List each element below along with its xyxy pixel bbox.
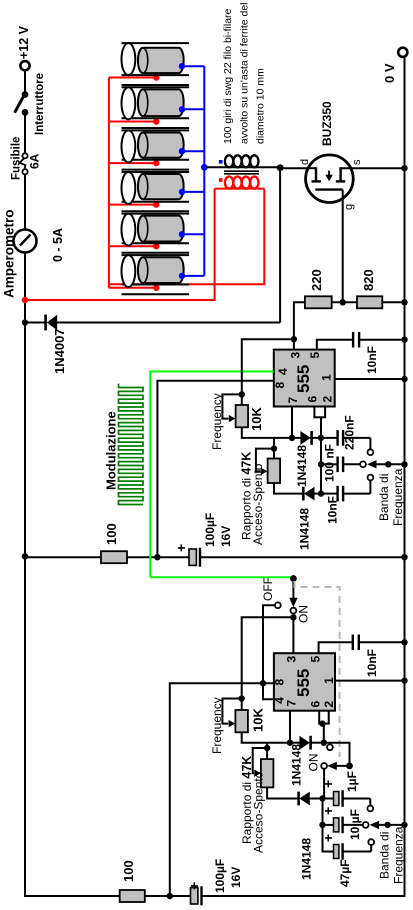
svg-text:820: 820 bbox=[361, 269, 376, 291]
svg-text:Banda di: Banda di bbox=[377, 474, 391, 521]
svg-text:Frequenza: Frequenza bbox=[391, 468, 405, 526]
node B timing junction bbox=[318, 435, 324, 441]
blue polarity dot bbox=[219, 160, 223, 164]
capacitor C 10uF bbox=[320, 807, 369, 840]
svg-text:100µF: 100µF bbox=[213, 859, 227, 893]
ferrite rod coil 3 bbox=[121, 130, 204, 169]
svg-text:+: + bbox=[320, 807, 336, 815]
node red tap coil 2 bbox=[153, 118, 159, 124]
wire 220 to gate node bbox=[332, 301, 358, 303]
wire pin 5 U2 + capacitor C 10nF (control) bbox=[319, 635, 408, 678]
svg-text:8: 8 bbox=[273, 382, 287, 389]
node D2 junction bbox=[318, 490, 324, 496]
svg-text:5: 5 bbox=[309, 656, 323, 663]
wire supply column 1 (first 555 feed) bbox=[25, 556, 102, 558]
wire +12V rail (ammeter to left corner) bbox=[24, 253, 26, 898]
wire pin 3 output U2 to switch bbox=[292, 614, 294, 654]
switch band selector (lower block) bbox=[370, 821, 408, 884]
node pin3 output junction U2 bbox=[290, 614, 296, 620]
capacitor C 220nF bbox=[321, 415, 373, 455]
node red tap coil 4 bbox=[153, 201, 159, 207]
diode D 1N4007 (flyback) bbox=[25, 315, 280, 374]
switch range enable (lower block) bbox=[307, 744, 353, 771]
switch modulation ON/OFF bbox=[261, 575, 311, 683]
svg-text:1N4148: 1N4148 bbox=[300, 838, 314, 880]
svg-text:BUZ350: BUZ350 bbox=[320, 101, 334, 146]
svg-text:OFF: OFF bbox=[261, 577, 275, 601]
diode D2 1N4148 (lower block) bbox=[299, 792, 323, 880]
wire pin3 U2 to 10K pot top bbox=[242, 617, 294, 698]
svg-text:Interruttore: Interruttore bbox=[34, 73, 46, 135]
node C1 (1uF junction) bbox=[319, 795, 325, 801]
wire Vcc riser to pin 8 U1 bbox=[157, 381, 273, 557]
wire green to ON/OFF switch bbox=[150, 576, 292, 578]
potentiometer 47K (duty, lower block) bbox=[240, 748, 273, 853]
svg-text:100: 100 bbox=[121, 860, 136, 882]
svg-text:10K: 10K bbox=[251, 708, 266, 732]
node supply 2 (Vcc feed of lower 555) bbox=[167, 893, 173, 899]
svg-text:10K: 10K bbox=[249, 407, 264, 431]
resistor R 100 (second block supply) bbox=[120, 860, 145, 902]
wire chain C2 to C3 bbox=[323, 825, 334, 852]
svg-text:0 V: 0 V bbox=[382, 63, 397, 83]
svg-text:Frequency: Frequency bbox=[210, 393, 224, 450]
wire 47K branch bbox=[273, 438, 275, 449]
svg-text:ON: ON bbox=[297, 605, 311, 623]
winding L black (sense) bbox=[206, 155, 280, 167]
svg-text:+: + bbox=[320, 780, 336, 788]
diode D1 1N4148 (lower block) bbox=[290, 736, 324, 786]
node A2 discharge junction bbox=[287, 740, 293, 746]
op-amp-style IC U2 555 timer bbox=[274, 653, 335, 711]
wire pins 6+2 U1 bbox=[313, 407, 326, 494]
ferrite rod coil 6 bbox=[121, 255, 204, 294]
node supply 1 (Vcc feed of upper 555) bbox=[154, 554, 160, 560]
svg-text:Frequenza: Frequenza bbox=[392, 826, 406, 884]
wire pins 6+2 U2 bbox=[318, 711, 330, 743]
node top rail / red coil feed (red) bbox=[22, 297, 28, 303]
winding L red (primary) bbox=[215, 177, 265, 189]
svg-text:g: g bbox=[343, 204, 355, 210]
wire red riser coil 4 bbox=[109, 204, 156, 206]
svg-text:Acceso-Spento: Acceso-Spento bbox=[252, 771, 266, 853]
node A discharge junction bbox=[289, 435, 295, 441]
wire red return to bus bbox=[109, 189, 264, 285]
switch band selector (upper block) bbox=[367, 460, 408, 526]
switch S1 Interruttore bbox=[15, 73, 46, 135]
wire blue bus bbox=[203, 66, 205, 276]
diode D1 1N4148 (upper block) bbox=[292, 431, 321, 487]
svg-text:6: 6 bbox=[309, 701, 323, 708]
resistor R 820 (gate pulldown) bbox=[357, 269, 382, 308]
svg-text:10nF: 10nF bbox=[326, 496, 340, 524]
svg-text:7: 7 bbox=[285, 700, 299, 707]
svg-text:16V: 16V bbox=[229, 867, 243, 888]
wire pin 1 U1 to 0V rail bbox=[335, 376, 408, 382]
node timing/100nF junction bbox=[318, 461, 324, 467]
svg-text:16V: 16V bbox=[219, 526, 233, 547]
svg-text:7: 7 bbox=[286, 397, 300, 404]
+12V terminal bbox=[17, 25, 31, 70]
capacitor C 1uF bbox=[320, 771, 373, 811]
svg-text:8: 8 bbox=[273, 679, 287, 686]
node 10K top / wiper (lower block) bbox=[239, 695, 245, 701]
waveform square wave (modulation) bbox=[119, 384, 144, 505]
node B2 timing junction bbox=[321, 740, 327, 746]
svg-text:100: 100 bbox=[104, 523, 119, 545]
svg-text:diametro 10 mm: diametro 10 mm bbox=[255, 68, 267, 144]
ferrite rod coil 1 bbox=[121, 43, 204, 85]
wire red riser coil 5 bbox=[109, 245, 156, 247]
node 820 on 0V rail bbox=[401, 299, 407, 305]
svg-text:ON: ON bbox=[307, 754, 321, 772]
capacitor C 10nF (timing) bbox=[321, 475, 373, 524]
wire switch to fuse bbox=[24, 112, 26, 153]
wire red feed from +12V rail bbox=[25, 189, 215, 300]
svg-text:220nF: 220nF bbox=[343, 415, 357, 450]
wire node B2 to range switch bbox=[324, 743, 350, 766]
node pin3 output junction U1 bbox=[291, 336, 297, 342]
svg-text:Modulazione: Modulazione bbox=[104, 411, 119, 490]
svg-text:1µF: 1µF bbox=[345, 771, 359, 792]
svg-text:+: + bbox=[320, 834, 336, 842]
wire pin 5 U1 + capacitor C 10nF (control) bbox=[317, 332, 408, 374]
svg-text:Frequency: Frequency bbox=[210, 697, 224, 754]
fuse F1 6A bbox=[11, 137, 42, 180]
svg-text:+12 V: +12 V bbox=[17, 25, 31, 59]
0V terminal bbox=[382, 48, 407, 83]
svg-text:10nF: 10nF bbox=[365, 346, 379, 374]
resistor R 220 (gate series) bbox=[305, 269, 332, 308]
op-amp-style IC U1 555 timer bbox=[274, 350, 335, 407]
wire red riser coil 1 bbox=[109, 77, 156, 79]
node source on 0V rail bbox=[401, 165, 407, 171]
wire fuse to ammeter bbox=[24, 174, 26, 229]
svg-text:47µF: 47µF bbox=[338, 859, 352, 887]
svg-text:1N4148: 1N4148 bbox=[295, 445, 309, 487]
ferrite rod coil 5 bbox=[121, 214, 204, 253]
wire red bus (collects coil red taps) bbox=[108, 78, 110, 288]
wire left supply column (second 555 feed) bbox=[24, 895, 121, 897]
svg-text:Amperometro: Amperometro bbox=[2, 209, 17, 298]
wire 1N4007 branch to drain node bbox=[279, 168, 281, 323]
node top rail / 1N4007 branch bbox=[22, 319, 28, 325]
label coil construction note bbox=[222, 3, 267, 145]
wire pin3 to 10K pot top bbox=[242, 339, 294, 394]
svg-text:1N4007: 1N4007 bbox=[52, 328, 67, 374]
wire source to 0V rail bbox=[341, 167, 405, 169]
node 10K top / wiper bbox=[239, 391, 245, 397]
potentiometer 10K (frequency, lower block) bbox=[210, 697, 266, 754]
svg-text:Fusibile: Fusibile bbox=[11, 137, 23, 180]
node red tap coil 1 bbox=[153, 74, 159, 80]
svg-text:s: s bbox=[351, 159, 363, 165]
node red tap coil 6 bbox=[153, 285, 159, 291]
capacitor C 47uF bbox=[320, 834, 374, 887]
node C2 (10uF junction) bbox=[319, 822, 325, 828]
transistor Q1 BUZ350 bbox=[299, 101, 363, 210]
node red tap coil 3 bbox=[153, 160, 159, 166]
wire red riser coil 3 bbox=[109, 162, 156, 164]
svg-text:555: 555 bbox=[294, 669, 313, 697]
node supply1 on 0V rail bbox=[401, 554, 407, 560]
wire +12V rail (terminal to switch) bbox=[24, 70, 26, 94]
svg-text:100 nF: 100 nF bbox=[323, 444, 337, 482]
wire pin 7 U1 bbox=[291, 407, 293, 438]
wire 10K bottom to node A2 bbox=[242, 732, 290, 742]
svg-text:10nF: 10nF bbox=[365, 649, 379, 677]
svg-text:+: + bbox=[186, 882, 202, 890]
transformer core bbox=[224, 171, 259, 174]
svg-text:555: 555 bbox=[294, 365, 313, 393]
wire pin 7 U2 bbox=[289, 711, 291, 743]
wire green reset pin 4 U1 bbox=[150, 372, 273, 578]
node 47K top / wiper (lower block) bbox=[264, 745, 270, 751]
wire gate bbox=[342, 190, 344, 303]
node red tap coil 5 bbox=[153, 243, 159, 249]
node top rail / supply branch 1 bbox=[22, 553, 28, 559]
wire 820 to 0V rail bbox=[382, 301, 404, 303]
svg-text:3: 3 bbox=[289, 352, 303, 359]
capacitor C 100nF bbox=[321, 444, 366, 482]
node gate / R divider bbox=[340, 299, 346, 305]
node 47K top / wiper bbox=[271, 445, 277, 451]
svg-text:10 µF: 10 µF bbox=[348, 809, 362, 840]
svg-text:5: 5 bbox=[308, 352, 322, 359]
ferrite rod coil 4 bbox=[121, 172, 204, 211]
svg-text:2: 2 bbox=[321, 396, 335, 403]
svg-text:4: 4 bbox=[276, 368, 290, 375]
svg-text:6A: 6A bbox=[28, 153, 42, 169]
potentiometer 47K (duty, upper block) bbox=[240, 449, 281, 545]
svg-text:1: 1 bbox=[320, 374, 334, 381]
svg-text:0 - 5A: 0 - 5A bbox=[51, 228, 65, 262]
wire 0V rail (bottom) bbox=[404, 57, 406, 897]
wire 47K bottom to D2 (lower block) bbox=[267, 787, 298, 798]
svg-text:avvolto su un'asta di ferrite: avvolto su un'asta di ferrite del bbox=[239, 3, 251, 145]
svg-text:1: 1 bbox=[322, 677, 336, 684]
wire 47K bottom to D2 bbox=[274, 483, 303, 494]
svg-text:100µF: 100µF bbox=[203, 513, 217, 547]
svg-text:220: 220 bbox=[309, 269, 324, 291]
svg-text:+: + bbox=[173, 544, 189, 552]
capacitor 100uF 16V (first block) bbox=[173, 513, 233, 567]
capacitor 100uF 16V (second block) bbox=[186, 859, 243, 906]
wire Vcc feed to pins 8+4 U2 bbox=[170, 680, 274, 896]
wire 47K branch (lower block) bbox=[266, 743, 268, 748]
wire pin 1 U2 to 0V rail bbox=[335, 677, 408, 683]
node drain / winding / 1N4007 bbox=[277, 164, 284, 171]
wire drain bbox=[280, 167, 316, 169]
svg-text:Banda di: Banda di bbox=[378, 832, 392, 879]
svg-text:3: 3 bbox=[285, 656, 299, 663]
diode D2 1N4148 (upper block) bbox=[298, 487, 322, 550]
svg-text:Acceso-Spento: Acceso-Spento bbox=[251, 463, 265, 545]
wire dashed modulation link bbox=[295, 581, 340, 757]
svg-text:1N4148: 1N4148 bbox=[290, 744, 304, 786]
wire red riser coil 2 bbox=[109, 121, 156, 123]
wire red riser coil 6 bbox=[109, 287, 156, 289]
resistor R 100 (first block supply) bbox=[101, 523, 127, 563]
wire chain C1 to C2 bbox=[322, 799, 324, 825]
svg-text:2: 2 bbox=[322, 701, 336, 708]
wire range switch to cap chain bbox=[323, 769, 325, 798]
wire 555#1 output to gate chain bbox=[294, 302, 306, 349]
red polarity dot bbox=[219, 178, 223, 182]
ferrite rod coil 2 bbox=[121, 87, 204, 128]
wire 10K bottom to node A bbox=[242, 427, 292, 438]
ammeter M1 Amperometro 0-5A bbox=[2, 209, 66, 298]
svg-text:100 giri di swg 22 filo bi-fil: 100 giri di swg 22 filo bi-filare bbox=[222, 8, 234, 144]
svg-text:6: 6 bbox=[306, 396, 320, 403]
svg-text:1N4148: 1N4148 bbox=[298, 508, 312, 550]
node blue bus / sense winding bbox=[201, 164, 208, 171]
svg-text:d: d bbox=[299, 159, 311, 165]
potentiometer 10K (frequency, upper block) bbox=[210, 393, 264, 450]
